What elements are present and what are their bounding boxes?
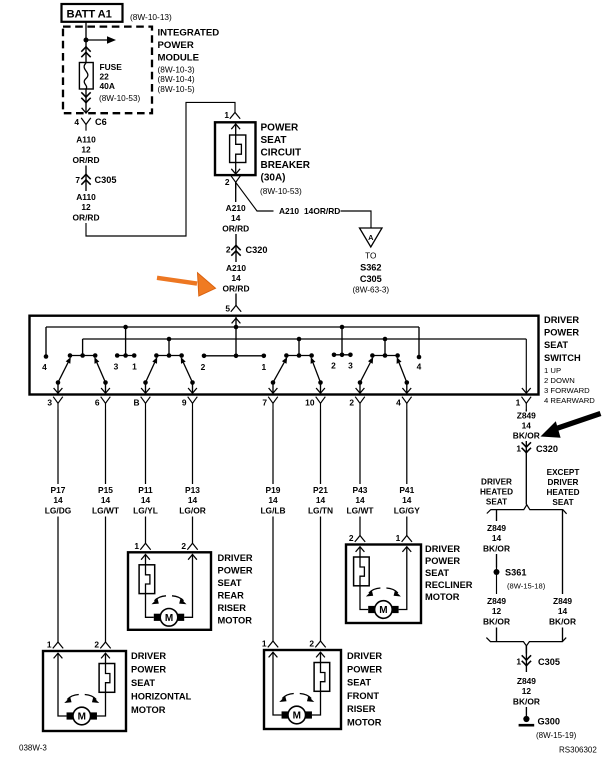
svg-text:DRIVER: DRIVER (481, 478, 512, 487)
svg-text:M: M (293, 711, 301, 722)
svg-text:RISER: RISER (347, 704, 376, 714)
svg-text:Z849: Z849 (553, 596, 572, 606)
svg-text:2: 2 (201, 362, 206, 372)
svg-text:OR/RD: OR/RD (223, 283, 250, 293)
svg-text:A110: A110 (76, 192, 96, 202)
svg-text:DRIVER: DRIVER (131, 651, 166, 661)
svg-text:POWER: POWER (425, 556, 460, 566)
svg-text:HORIZONTAL: HORIZONTAL (131, 692, 192, 702)
black annotation arrow (541, 414, 601, 438)
svg-text:C6: C6 (95, 117, 107, 127)
svg-text:1: 1 (516, 657, 521, 667)
internal circuit breaker of DRIVER POWER SEAT FRONT RISER MOTOR (314, 663, 330, 692)
svg-text:3: 3 (47, 398, 52, 408)
svg-text:P21: P21 (313, 485, 328, 495)
rail1 right stub to contact 4 (418, 327, 420, 357)
svg-text:A: A (368, 233, 374, 242)
svg-text:14: 14 (522, 420, 532, 430)
svg-text:SEAT: SEAT (218, 578, 242, 588)
svg-text:SEAT: SEAT (131, 678, 155, 688)
stationary contacts 3 / 1 (117, 355, 134, 357)
svg-text:DRIVER: DRIVER (347, 651, 382, 661)
internal circuit breaker of DRIVER POWER SEAT HORIZONTAL MOTOR (99, 664, 115, 693)
svg-text:RECLINER: RECLINER (425, 580, 473, 590)
svg-text:(8W-15-19): (8W-15-19) (536, 731, 577, 740)
svg-text:P41: P41 (399, 485, 414, 495)
svg-text:1: 1 (261, 362, 266, 372)
rail2 junction dots (167, 337, 172, 342)
power seat circuit breaker box (215, 122, 256, 175)
svg-text:MOTOR: MOTOR (425, 592, 460, 602)
wire Z849 from switch pin 1 (525, 410, 527, 412)
svg-text:1 UP: 1 UP (544, 366, 561, 375)
svg-text:SEAT: SEAT (347, 678, 371, 688)
svg-text:Z849: Z849 (517, 410, 536, 420)
breaker internal wire with arrow (235, 125, 237, 136)
svg-text:LG/OR: LG/OR (179, 505, 206, 515)
driver power seat switch box (30, 316, 539, 395)
svg-text:LG/YL: LG/YL (133, 505, 158, 515)
svg-text:14: 14 (355, 495, 365, 505)
svg-text:POWER: POWER (158, 40, 194, 51)
pin entry arrows (141, 555, 150, 560)
svg-text:P15: P15 (98, 485, 113, 495)
pin entry arrows (54, 653, 63, 658)
switch rocker riser rear (156, 355, 181, 357)
left wire to motor (273, 652, 282, 715)
svg-text:1: 1 (134, 541, 139, 551)
svg-text:14: 14 (316, 495, 326, 505)
fuse F22 40A (79, 63, 93, 90)
svg-text:2: 2 (181, 541, 186, 551)
svg-text:BK/OR: BK/OR (483, 543, 510, 553)
svg-text:P43: P43 (353, 485, 368, 495)
svg-text:LG/LB: LG/LB (260, 505, 285, 515)
stationary contacts 2 / 3 (334, 354, 350, 356)
wire (235, 234, 237, 262)
splice S361 (494, 569, 500, 575)
right wire to motor (184, 554, 192, 617)
svg-text:B: B (133, 398, 139, 408)
svg-text:40A: 40A (100, 81, 115, 91)
svg-text:SEAT: SEAT (425, 568, 449, 578)
right wire to motor (399, 547, 407, 610)
svg-text:CIRCUIT: CIRCUIT (261, 148, 302, 159)
svg-text:MODULE: MODULE (158, 53, 200, 64)
svg-text:MOTOR: MOTOR (218, 616, 253, 626)
svg-text:SEAT: SEAT (261, 135, 287, 146)
motor box DRIVER POWER SEAT REAR RISER MOTOR (128, 552, 211, 630)
svg-text:G300: G300 (538, 717, 560, 727)
circuit breaker element (230, 135, 246, 163)
svg-text:A210: A210 (226, 263, 246, 273)
svg-text:RISER: RISER (218, 603, 247, 613)
wire below pin 2 (235, 182, 237, 202)
svg-text:SEAT: SEAT (552, 498, 573, 507)
options merge bracket (486, 638, 566, 646)
rotation arrows of DRIVER POWER SEAT REAR RISER MOTOR (155, 596, 167, 601)
left wire to motor through breaker (145, 554, 147, 565)
svg-text:Z849: Z849 (487, 596, 506, 606)
right wire to motor through breaker (320, 652, 322, 663)
svg-text:2 DOWN: 2 DOWN (544, 376, 575, 385)
motor box DRIVER POWER SEAT RECLINER MOTOR (346, 545, 421, 624)
svg-text:MOTOR: MOTOR (131, 705, 166, 715)
svg-text:DRIVER: DRIVER (425, 544, 460, 554)
svg-text:LG/WT: LG/WT (347, 505, 375, 515)
svg-text:(8W-63-3): (8W-63-3) (352, 286, 389, 295)
wire (85, 166, 87, 172)
right wire to motor through breaker (105, 653, 107, 664)
pin entry arrows (269, 652, 278, 657)
svg-text:P17: P17 (51, 485, 66, 495)
svg-text:HEATED: HEATED (480, 488, 513, 497)
svg-text:14: 14 (141, 495, 151, 505)
svg-text:14: 14 (402, 495, 412, 505)
svg-text:POWER: POWER (218, 566, 253, 576)
ground G300 (523, 716, 529, 722)
svg-text:BK/OR: BK/OR (513, 696, 540, 706)
svg-text:(30A): (30A) (261, 172, 286, 183)
svg-text:2: 2 (309, 639, 314, 649)
junction node in IPM (84, 38, 89, 43)
svg-text:14: 14 (231, 273, 241, 283)
svg-text:2: 2 (94, 640, 99, 650)
svg-text:BK/OR: BK/OR (513, 431, 540, 441)
wire P41 LG/GY (406, 410, 408, 485)
wire P19 LG/LB (272, 410, 274, 485)
switch rocker recliner (372, 355, 397, 357)
svg-text:7: 7 (262, 398, 267, 408)
svg-text:RS306302: RS306302 (559, 746, 597, 755)
svg-text:P19: P19 (266, 485, 281, 495)
wire P15 LG/WT (105, 410, 107, 485)
svg-text:TO: TO (365, 252, 376, 261)
svg-text:2: 2 (349, 533, 354, 543)
svg-text:2: 2 (331, 361, 336, 371)
svg-text:DRIVER: DRIVER (218, 553, 253, 563)
wire P13 LG/OR (192, 410, 194, 485)
svg-text:(8W-10-3): (8W-10-3) (158, 64, 195, 74)
svg-text:OR/RD: OR/RD (73, 212, 100, 222)
svg-text:14: 14 (231, 213, 241, 223)
svg-text:1: 1 (262, 639, 267, 649)
wire P17 LG/DG (57, 410, 59, 485)
svg-text:FRONT: FRONT (347, 691, 379, 701)
svg-text:REAR: REAR (218, 591, 245, 601)
left wire to motor (58, 653, 67, 716)
svg-text:5: 5 (225, 304, 230, 314)
svg-text:EXCEPT: EXCEPT (547, 468, 580, 477)
svg-text:1: 1 (516, 444, 521, 454)
svg-text:9: 9 (182, 398, 187, 408)
bus rail 2 (83, 338, 527, 340)
pin entry arrows (356, 547, 365, 552)
svg-text:SEAT: SEAT (486, 498, 507, 507)
wire P43 LG/WT (359, 410, 361, 485)
svg-text:C305: C305 (95, 175, 117, 185)
svg-text:OR/RD: OR/RD (222, 224, 249, 234)
svg-text:1: 1 (516, 398, 521, 408)
motor M DRIVER POWER SEAT RECLINER MOTOR (375, 601, 393, 619)
svg-text:M: M (379, 605, 387, 616)
wire (235, 294, 237, 306)
svg-text:14: 14 (268, 495, 278, 505)
svg-text:BATT A1: BATT A1 (67, 9, 112, 21)
stationary contacts 2 / 1 center feed (204, 355, 264, 357)
svg-text:(8W-10-53): (8W-10-53) (99, 94, 141, 103)
svg-text:4: 4 (74, 117, 79, 127)
svg-text:(8W-10-13): (8W-10-13) (130, 12, 172, 22)
svg-text:LG/DG: LG/DG (45, 505, 72, 515)
svg-text:S361: S361 (505, 568, 526, 578)
svg-text:LG/GY: LG/GY (394, 505, 420, 515)
svg-text:(8W-15-18): (8W-15-18) (507, 582, 546, 591)
svg-text:M: M (165, 613, 173, 624)
wire routing to circuit breaker (86, 102, 235, 236)
svg-text:BK/OR: BK/OR (549, 616, 576, 626)
svg-text:BK/OR: BK/OR (483, 616, 510, 626)
svg-text:DRIVER: DRIVER (544, 315, 579, 325)
svg-text:M: M (78, 712, 86, 723)
svg-text:14: 14 (101, 495, 111, 505)
svg-text:12: 12 (81, 145, 91, 155)
svg-text:1: 1 (224, 110, 229, 120)
motor M DRIVER POWER SEAT REAR RISER MOTOR (160, 609, 178, 627)
svg-text:4 REARWARD: 4 REARWARD (544, 396, 595, 405)
arrow crossing IPM boundary (82, 108, 91, 113)
svg-text:1: 1 (396, 533, 401, 543)
left wire to motor through breaker (359, 547, 361, 558)
internal circuit breaker of DRIVER POWER SEAT RECLINER MOTOR (354, 557, 370, 586)
switch rocker riser front (286, 355, 311, 357)
wire (496, 554, 498, 568)
rotation arrows of DRIVER POWER SEAT RECLINER MOTOR (369, 588, 381, 593)
svg-text:2: 2 (349, 398, 354, 408)
options split bracket (487, 505, 567, 514)
bus rail 1 (46, 326, 419, 328)
orange annotation arrow (157, 273, 216, 296)
wire below fuse (85, 89, 87, 114)
svg-text:3: 3 (114, 362, 119, 372)
connector chevrons above fuse (81, 47, 90, 52)
rotation arrows of DRIVER POWER SEAT HORIZONTAL MOTOR (67, 695, 79, 700)
svg-text:OR/RD: OR/RD (73, 155, 100, 165)
integrated power module dashed box (63, 27, 152, 114)
svg-text:7: 7 (75, 175, 80, 185)
svg-text:14OR/RD: 14OR/RD (304, 206, 340, 216)
wire P11 LG/YL (145, 410, 147, 485)
wire P21 LG/TN (320, 410, 322, 485)
svg-text:A210: A210 (279, 206, 299, 216)
off-page reference triangle A (360, 228, 383, 247)
svg-text:14: 14 (53, 495, 63, 505)
left option wire stub (496, 510, 498, 521)
svg-text:C305: C305 (538, 657, 560, 667)
wire (562, 628, 564, 642)
svg-text:C320: C320 (536, 444, 558, 454)
motor M DRIVER POWER SEAT FRONT RISER MOTOR (288, 706, 306, 724)
svg-text:12: 12 (81, 202, 91, 212)
svg-text:12: 12 (492, 606, 502, 616)
svg-text:MOTOR: MOTOR (347, 718, 382, 728)
svg-text:3 FORWARD: 3 FORWARD (544, 386, 590, 395)
svg-text:POWER: POWER (544, 328, 579, 338)
svg-text:12: 12 (522, 686, 532, 696)
svg-text:(8W-10-53): (8W-10-53) (260, 186, 302, 196)
svg-text:S362: S362 (360, 263, 381, 273)
tap wire to splice S362 (236, 182, 274, 211)
svg-text:SWITCH: SWITCH (544, 353, 581, 363)
svg-text:10: 10 (305, 398, 315, 408)
svg-text:HEATED: HEATED (546, 488, 579, 497)
svg-text:4: 4 (42, 362, 47, 372)
svg-text:POWER: POWER (131, 665, 166, 675)
svg-text:POWER: POWER (347, 664, 382, 674)
svg-text:14: 14 (558, 606, 568, 616)
rotation arrows of DRIVER POWER SEAT FRONT RISER MOTOR (282, 694, 294, 699)
svg-text:P13: P13 (185, 485, 200, 495)
svg-text:A110: A110 (76, 135, 96, 145)
svg-text:LG/TN: LG/TN (308, 505, 333, 515)
wire tap to other circuits with arrow (86, 39, 108, 41)
svg-text:4: 4 (417, 362, 422, 372)
svg-text:SEAT: SEAT (544, 340, 568, 350)
tap wire continues to off-page triangle (341, 211, 372, 228)
svg-text:C305: C305 (360, 274, 382, 284)
svg-text:2: 2 (225, 177, 230, 187)
svg-text:POWER: POWER (261, 123, 300, 134)
svg-text:Z849: Z849 (487, 523, 506, 533)
svg-text:3: 3 (348, 361, 353, 371)
switch feed wire from pin 5 (235, 317, 237, 356)
motor box DRIVER POWER SEAT FRONT RISER MOTOR (264, 650, 341, 729)
motor box DRIVER POWER SEAT HORIZONTAL MOTOR (43, 651, 126, 731)
rail2 right drop to pin 1 (525, 339, 527, 394)
wire (496, 628, 498, 642)
svg-text:2: 2 (226, 245, 231, 255)
rail1 junction dots (123, 325, 128, 330)
svg-text:4: 4 (396, 398, 401, 408)
wire to ground (525, 707, 527, 717)
right option wire (562, 510, 564, 594)
switch rocker up/down left (70, 355, 95, 357)
svg-text:1: 1 (132, 362, 137, 372)
internal circuit breaker of DRIVER POWER SEAT REAR RISER MOTOR (139, 565, 155, 594)
wire to connector C305 (525, 646, 527, 654)
svg-text:INTEGRATED: INTEGRATED (158, 28, 220, 39)
svg-text:BREAKER: BREAKER (261, 160, 311, 171)
connector chevrons below fuse (81, 92, 90, 97)
rail1 left stub to contact 4 (45, 327, 47, 357)
svg-text:DRIVER: DRIVER (548, 478, 579, 487)
motor M DRIVER POWER SEAT HORIZONTAL MOTOR (73, 707, 91, 725)
svg-text:C320: C320 (246, 245, 268, 255)
svg-text:Z849: Z849 (517, 676, 536, 686)
svg-text:14: 14 (492, 533, 502, 543)
svg-text:P11: P11 (138, 485, 153, 495)
svg-text:A210: A210 (226, 203, 246, 213)
wire from BATT A1 into IPM (85, 22, 87, 63)
svg-text:1: 1 (47, 640, 52, 650)
svg-text:(8W-10-4): (8W-10-4) (158, 74, 195, 84)
svg-text:LG/WT: LG/WT (92, 505, 120, 515)
svg-text:(8W-10-5): (8W-10-5) (158, 84, 195, 94)
battery feed box BATT A1 (62, 4, 123, 22)
svg-text:14: 14 (188, 495, 198, 505)
svg-text:6: 6 (95, 398, 100, 408)
svg-text:038W-3: 038W-3 (19, 744, 47, 753)
